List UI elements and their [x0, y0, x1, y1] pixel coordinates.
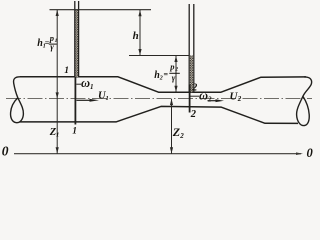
arrow up at level 1 [138, 10, 141, 16]
arrow down at datum [56, 147, 59, 153]
arrow down at level 2 [138, 49, 141, 55]
water level line of tube T2 [129, 55, 189, 57]
left pipe break (squiggle + loop) [11, 77, 24, 123]
dimension line Z2 (x=171.5) [171, 99, 173, 154]
svg-text:0: 0 [307, 146, 314, 160]
water level line of tube T1 [50, 9, 152, 11]
svg-text:2: 2 [207, 96, 212, 104]
svg-text:ω: ω [199, 89, 208, 103]
arrow up at level 2 [174, 56, 177, 62]
centerline (pipe axis, dash-dot) [6, 98, 312, 100]
svg-text:=: = [164, 70, 169, 79]
datum right arrowhead [296, 152, 303, 155]
svg-text:1: 1 [106, 95, 109, 102]
pipe bottom wall [20, 106, 299, 123]
leader to omega1 [76, 83, 81, 85]
svg-text:ω: ω [81, 76, 90, 90]
svg-text:2: 2 [159, 76, 163, 82]
dimension line h1/Z1 (x=57.2) [56, 10, 58, 154]
arrow down at throat top [174, 86, 177, 92]
svg-text:1: 1 [56, 132, 59, 139]
svg-text:2: 2 [191, 83, 197, 94]
arrow down at datum [170, 147, 173, 153]
svg-text:1: 1 [72, 127, 77, 137]
tube T1 water (stippled) [75, 10, 78, 77]
velocity arrow U1 [77, 99, 93, 101]
arrow up at centerline [170, 99, 173, 105]
svg-text:2: 2 [179, 132, 184, 140]
svg-text:γ: γ [50, 41, 54, 51]
svg-text:1: 1 [64, 66, 69, 76]
dimension line h2 (x=176) [175, 56, 177, 93]
svg-text:h: h [133, 30, 139, 42]
svg-text:γ: γ [172, 72, 176, 82]
datum line 0-0 [14, 153, 301, 155]
svg-text:2: 2 [237, 95, 242, 103]
arrow up at level 1 [56, 10, 59, 16]
section line 1-1 [74, 77, 76, 125]
pipe top wall (left section to throat to right section) [20, 77, 306, 92]
svg-text:1: 1 [55, 38, 58, 44]
dimension line h (x=140) [139, 10, 141, 56]
paper background [0, 0, 320, 161]
right pipe break (squiggle + loop) [297, 77, 312, 126]
svg-text:0: 0 [2, 143, 9, 158]
arrow down at centerline [56, 92, 59, 98]
velocity arrow U2 [208, 100, 218, 102]
svg-text:p: p [169, 61, 174, 71]
leader to omega2 [191, 95, 200, 97]
svg-text:1: 1 [90, 83, 94, 91]
piezometer tube T1 walls [74, 1, 76, 77]
section line 2-2 [189, 85, 191, 113]
svg-text:2: 2 [190, 109, 197, 120]
tube T2 water (stippled) [190, 56, 193, 93]
piezometer tube T2 walls [188, 4, 190, 92]
